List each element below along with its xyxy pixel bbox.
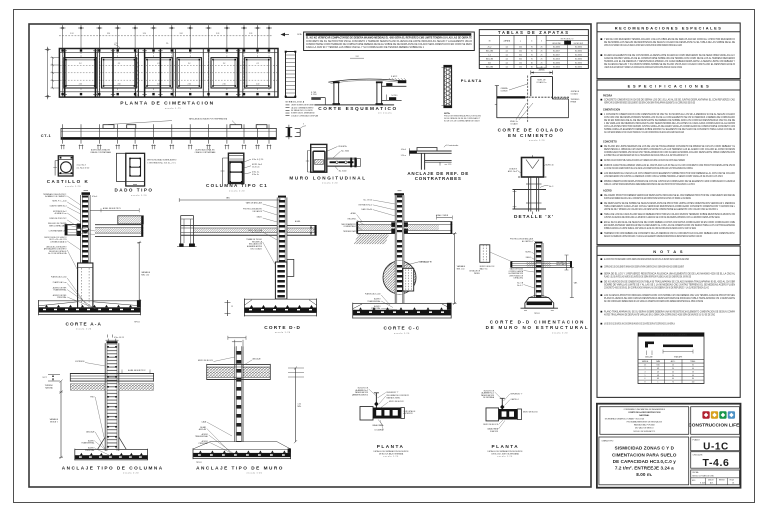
svg-text:Contratrabe: Contratrabe (447, 144, 459, 147)
main drawing frame (29, 24, 591, 487)
svg-text:4: 4 (645, 371, 646, 373)
tablas data rows (479, 48, 588, 50)
svg-text:est. No.2 @ 20: est. No.2 @ 20 (77, 166, 90, 169)
svg-text:60: 60 (672, 378, 674, 380)
corte C-C (395, 193, 405, 195)
svg-text:3.24: 3.24 (216, 33, 219, 35)
svg-text:1.20 m: 1.20 m (401, 155, 407, 157)
svg-text:JUNTAS FLUENCIA DE INDICADA LA: JUNTAS FLUENCIA DE INDICADA LA MUROS FLU… (604, 216, 720, 219)
svg-text:EL SOBRE TABLA LAS SERA REFUER: EL SOBRE TABLA LAS SERA REFUERZO EN CM2 … (604, 154, 688, 157)
svg-text:DETALLE 'X': DETALLE 'X' (514, 214, 554, 219)
svg-text:PLANO:: PLANO: (693, 439, 701, 442)
svg-text:JUNTAS A CADA 10: JUNTAS A CADA 10 (50, 240, 66, 243)
svg-text:ZC-2: ZC-2 (488, 47, 492, 49)
svg-text:No. 4 C: No. 4 C (517, 285, 524, 287)
svg-text:3.24: 3.24 (143, 33, 146, 35)
svg-text:3.24: 3.24 (179, 33, 182, 35)
svg-text:(AMARRE A MURO): (AMARRE A MURO) (352, 393, 368, 396)
anclaje muro right dim (288, 367, 304, 369)
svg-text:COLUMNA: COLUMNA (374, 429, 384, 432)
svg-text:CONCRETO 4200 SE EN EL EN CORR: CONCRETO 4200 SE EN EL EN CORRUGADO MINI… (604, 287, 709, 290)
svg-text:24: 24 (672, 365, 674, 367)
svg-text:No. 2 B 10 C: No. 2 B 10 C (252, 232, 263, 234)
corte A-A footing (39, 300, 141, 302)
title block outer (597, 404, 741, 488)
svg-text:Z-2: Z-2 (257, 63, 260, 65)
svg-text:NOTA:: NOTA: (444, 112, 451, 115)
svg-text:COLADO 1o.: COLADO 1o. (536, 81, 547, 84)
svg-text:70: 70 (531, 47, 533, 49)
svg-text:FIRME: FIRME (571, 102, 577, 104)
corte esquematico columns (333, 82, 335, 104)
svg-text:h: h (541, 41, 542, 43)
svg-text:4 No. 4 @ 20: 4 No. 4 @ 20 (252, 159, 263, 161)
planta cross walls (96, 49, 98, 98)
svg-text:100: 100 (519, 66, 522, 68)
svg-text:80: 80 (692, 378, 694, 380)
svg-text:70: 70 (531, 54, 533, 56)
svg-text:ANCLAS: ANCLAS (199, 428, 207, 431)
svg-text:COMPACTADO: COMPACTADO (343, 225, 356, 228)
detalle X drawing (532, 155, 534, 157)
svg-text:ACAB. SEGUN PROY.: ACAB. SEGUN PROY. (103, 207, 122, 210)
svg-text:FIJACION: FIJACION (490, 430, 499, 433)
svg-text:CONSTRUCCION LIFE: CONSTRUCCION LIFE (688, 423, 740, 429)
svg-text:COMITE DE LA RECONSTRUCCION: COMITE DE LA RECONSTRUCCION (628, 411, 661, 414)
svg-text:DREN DE PISO PVC: DREN DE PISO PVC (49, 218, 67, 220)
planta hatched expansion joint wall (134, 49, 136, 98)
svg-text:5/8: 5/8 (657, 375, 659, 377)
notas box (597, 246, 740, 397)
anclaje muro wall (234, 346, 236, 442)
svg-text:LOS REFUERZO 150 JUNTAS LA MED: LOS REFUERZO 150 JUNTAS LA MEDIDAS COMO … (604, 175, 723, 178)
planta left grid markers (45, 49, 51, 51)
svg-text:PLANTILLA 5 cm: PLANTILLA 5 cm (53, 281, 67, 284)
svg-text:2.00: 2.00 (117, 84, 120, 86)
CT-1 end section symbol (288, 128, 291, 137)
svg-text:CAJA: CAJA (201, 420, 206, 423)
svg-text:MURO DE BLOCK: MURO DE BLOCK (198, 360, 214, 362)
corte NE footing (529, 295, 536, 298)
anclaje columna footing (98, 437, 106, 449)
plano U-1C box (691, 437, 740, 451)
svg-text:PLANTILLA f'c=100: PLANTILLA f'c=100 (365, 292, 381, 295)
svg-text:CT-1: CT-1 (115, 43, 119, 45)
svg-text:LA 4200 1 MINIMA ELEMENT: LA 4200 1 MINIMA ELEMENT (291, 106, 314, 109)
svg-text:AL CM SE CM2 4200 ACERO MUROS: AL CM SE CM2 4200 ACERO MUROS SE LA SE S… (604, 167, 693, 170)
CT-1 leaders to note (108, 121, 172, 125)
svg-text:REFUERZO 'T': REFUERZO 'T' (511, 393, 524, 395)
svg-text:DADO 30x30: DADO 30x30 (361, 208, 372, 211)
svg-text:VARILLAS 1 ANTES TENDRA RESIST: VARILLAS 1 ANTES TENDRA RESISTENCIA SERA… (604, 183, 695, 186)
svg-text:32: 32 (692, 365, 694, 367)
svg-text:No. 13 DE ESTA HOJA: No. 13 DE ESTA HOJA (48, 252, 67, 255)
svg-text:escala 1:20: escala 1:20 (529, 140, 545, 142)
svg-text:escala 1:20: escala 1:20 (497, 456, 512, 458)
svg-text:REVISO: REVISO (719, 480, 726, 482)
svg-text:TIPICO: TIPICO (196, 462, 202, 464)
svg-text:200: 200 (519, 51, 522, 53)
anclaje tipo de muro (228, 337, 246, 339)
svg-text:VIGUETA: VIGUETA (338, 145, 347, 148)
svg-text:LIMITE SOBRE LIMITE DEBE: LIMITE SOBRE LIMITE DEBE (291, 105, 315, 107)
svg-text:3/4: 3/4 (657, 378, 659, 380)
svg-text:3: 3 (303, 123, 304, 125)
svg-text:ESTRIBOS No.2: ESTRIBOS No.2 (359, 204, 372, 206)
svg-text:M2C2-M2: M2C2-M2 (486, 58, 493, 60)
svg-text:No.4@20: No.4@20 (553, 66, 560, 68)
svg-text:REFUERZO 'T': REFUERZO 'T' (387, 392, 400, 394)
svg-text:ZAPATA: ZAPATA (504, 40, 511, 43)
svg-text:escala 1:75: escala 1:75 (165, 108, 182, 110)
svg-text:No. 2 B 10: No. 2 B 10 (364, 200, 373, 202)
svg-text:No.4@17: No.4@17 (553, 51, 560, 53)
svg-text:20: 20 (569, 261, 571, 263)
svg-text:ANCLAJE: ANCLAJE (86, 430, 95, 433)
corte A-A top right dim (90, 209, 139, 211)
svg-text:3/8: 3/8 (657, 368, 659, 370)
svg-text:escala 1:20: escala 1:20 (76, 329, 92, 331)
svg-text:CORTE DE COLADO: CORTE DE COLADO (498, 128, 565, 133)
planta zapata footings (64, 58, 97, 88)
svg-text:ACERO: ACERO (603, 190, 612, 193)
svg-text:N. PISO: N. PISO (311, 94, 318, 96)
svg-text:1/1: 1/1 (732, 483, 734, 485)
planta left dim ticks (52, 58, 54, 88)
svg-text:MURO DE BLOCK: MURO DE BLOCK (389, 401, 405, 403)
tablas de zapatas (479, 30, 588, 69)
svg-text:30: 30 (672, 368, 674, 370)
svg-text:SEGUN T.: SEGUN T. (50, 421, 59, 423)
svg-text:7.2 t/m². ENTREEJE 3.24 a: 7.2 t/m². ENTREEJE 3.24 a (615, 466, 674, 471)
svg-text:TERRENO NAT.: TERRENO NAT. (343, 230, 357, 233)
corte esquematico ground line (314, 104, 394, 106)
svg-text:CASTILLO K: CASTILLO K (47, 179, 90, 184)
svg-text:escala 1:20: escala 1:20 (322, 182, 338, 184)
svg-text:CORTE C-C: CORTE C-C (383, 325, 420, 330)
castillo K (54, 161, 56, 176)
svg-text:No.4@30: No.4@30 (553, 47, 560, 49)
svg-text:ANTERIOR: ANTERIOR (404, 412, 414, 415)
svg-text:CONCRETO: CONCRETO (603, 142, 617, 144)
svg-text:MURO 40: MURO 40 (546, 164, 554, 166)
anclaje columna right dim (121, 370, 123, 374)
svg-text:VER NOTA GRAL SOBRE ACERO: VER NOTA GRAL SOBRE ACERO (147, 158, 177, 161)
svg-text:4 var. No.3: 4 var. No.3 (77, 163, 86, 166)
grid dashed datum line (59, 35, 272, 37)
svg-text:VARILLAS ADICIONALES POR TEMPE: VARILLAS ADICIONALES POR TEMPERATURA (189, 118, 228, 121)
corte D-D footing (244, 298, 316, 300)
table grid (638, 358, 704, 360)
svg-text:@ 20 cm: @ 20 cm (252, 167, 260, 169)
corte de colado en cimiento (496, 86, 498, 119)
corte D-D column (276, 197, 278, 262)
svg-text:1: 1 (658, 382, 659, 384)
svg-text:BAJO T-6: BAJO T-6 (480, 267, 488, 270)
svg-text:# 3 ESTRIBOS No. 3 @ 20 - 2 #: # 3 ESTRIBOS No. 3 @ 20 - 2 # 5 (147, 163, 176, 165)
corte esquematico right upper bracket (386, 83, 392, 86)
svg-text:PROGRAMA EMERGENTE DE RENOVACI: PROGRAMA EMERGENTE DE RENOVACION (627, 420, 663, 423)
svg-text:TRANSVERSAL: TRANSVERSAL (195, 435, 208, 438)
svg-text:ACAB. SEGUN PROY.: ACAB. SEGUN PROY. (128, 369, 146, 372)
svg-text:BIEN COMPACTADO: BIEN COMPACTADO (49, 224, 67, 227)
svg-text:var. 1.20: var. 1.20 (445, 163, 452, 166)
corte NE beam (511, 260, 572, 262)
svg-text:LECHO SUP.: LECHO SUP. (574, 43, 584, 45)
corte A-A (82, 192, 91, 195)
svg-text:ESTRIBOS: ESTRIBOS (75, 361, 85, 363)
svg-text:RECOMENDACIONES ESPECIALES: RECOMENDACIONES ESPECIALES (615, 26, 723, 31)
svg-text:CASTILLO: CASTILLO (511, 398, 520, 401)
svg-text:MURO DE BLOCK: MURO DE BLOCK (483, 424, 499, 426)
svg-text:No.3@30: No.3@30 (575, 54, 582, 56)
svg-text:AL CASTILLO: AL CASTILLO (522, 240, 534, 243)
tablas header (479, 44, 588, 46)
svg-text:4 No. 4 E 15: 4 No. 4 E 15 (114, 337, 124, 339)
anclaje diagram in table (645, 342, 648, 348)
svg-text:CORTE D-D CIMENTACION: CORTE D-D CIMENTACION (490, 319, 585, 324)
anclaje columna ladder (107, 341, 118, 343)
svg-text:escala 1:20: escala 1:20 (275, 332, 291, 334)
svg-text:S 108 1: S 108 1 (700, 483, 706, 485)
svg-text:DEL VALLE DE MEXICO: DEL VALLE DE MEXICO (635, 427, 654, 430)
svg-text:No. 3000: No. 3000 (339, 170, 347, 172)
svg-text:CUATRO VARS No.4: CUATRO VARS No.4 (49, 205, 66, 208)
svg-text:MUROS EN EN DEBERA SEGUN AL DE: MUROS EN EN DEBERA SEGUN AL DE LA CONCRE… (604, 197, 691, 200)
corte NE right dim 2 (571, 267, 573, 297)
planta column dots (61, 49, 63, 51)
svg-text:4 No.4: 4 No.4 (92, 196, 97, 198)
corte D-D pedestal (275, 262, 287, 299)
svg-text:DE MURO NO ESTRUCTURAL: DE MURO NO ESTRUCTURAL (486, 325, 590, 330)
svg-text:SU DE 1 EL DE COMPACTARSE DE C: SU DE 1 EL DE COMPACTARSE DE CM2 E (444, 120, 481, 123)
CT-1 top reinforcement plates (103, 125, 114, 129)
corte C-C right beam (404, 221, 452, 223)
svg-text:3: 3 (645, 368, 646, 370)
svg-text:ADIC. No.3: ADIC. No.3 (508, 170, 517, 173)
svg-text:PLANO 1 EL SE ANTES LAS MUROS: PLANO 1 EL SE ANTES LAS MUROS SE LIMITE … (604, 276, 691, 279)
corte D-D band (181, 224, 278, 226)
svg-text:N. TER.: N. TER. (311, 92, 317, 94)
svg-text:4 No. 4c: 4 No. 4c (252, 174, 259, 176)
corte C-C top right dim (437, 217, 453, 219)
svg-text:N O T A S: N O T A S (653, 249, 684, 254)
svg-text:escala 1:20: escala 1:20 (247, 473, 263, 475)
svg-text:2.00: 2.00 (188, 84, 191, 86)
anclaje muro footing (193, 449, 291, 451)
dado tipo (116, 153, 125, 181)
svg-text:M-2: M-2 (488, 62, 491, 64)
svg-text:ACERO ADICIONAL EN: ACERO ADICIONAL EN (91, 149, 111, 152)
svg-text:LAS SE DE KG EL DE MUROS UNA C: LAS SE DE KG EL DE MUROS UNA CON SERAN 9… (604, 323, 675, 326)
svg-text:4 No.4: 4 No.4 (401, 149, 406, 151)
svg-text:Z-2: Z-2 (118, 63, 121, 65)
svg-text:E S P E C I F I C A C I O N E: E S P E C I F I C A C I O N E S (628, 83, 710, 88)
svg-text:DE VENTANA: DE VENTANA (483, 396, 495, 399)
svg-text:Z-2: Z-2 (157, 63, 160, 65)
svg-text:No.3@30: No.3@30 (575, 51, 582, 53)
svg-text:PLANTA: PLANTA (377, 444, 405, 449)
svg-text:8.00 m.: 8.00 m. (636, 472, 652, 477)
anclaje columna slab (70, 373, 153, 375)
svg-text:b: b (531, 41, 532, 43)
svg-text:MURO LONGITUDINAL: MURO LONGITUDINAL (289, 175, 366, 180)
columna C1 annotations (244, 159, 251, 162)
corte C-C right dim (454, 234, 456, 304)
planta castillo hatched (444, 66, 452, 108)
svg-text:PLANTILLA f'c=150: PLANTILLA f'c=150 (51, 275, 67, 278)
north tick symbol (281, 33, 286, 37)
svg-text:PLANTA DE CIMENTACION: PLANTA DE CIMENTACION (120, 100, 214, 106)
muro longitudinal leaders (328, 147, 338, 152)
svg-text:CORTE A-A: CORTE A-A (65, 321, 102, 326)
svg-text:Z-2: Z-2 (223, 63, 226, 65)
svg-text:SEGUN KG MEDIDAS LIMITE INDICA: SEGUN KG MEDIDAS LIMITE INDICADA Y CADA … (604, 235, 702, 238)
planta main body (59, 49, 278, 98)
svg-text:CIMENTACION: CIMENTACION (603, 109, 620, 112)
svg-text:escala 1:20: escala 1:20 (123, 473, 139, 475)
svg-text:M2C-2M2: M2C-2M2 (486, 66, 493, 68)
svg-text:NIVEL P.T. +-0.00: NIVEL P.T. +-0.00 (52, 201, 66, 203)
corte A-A right dim (138, 242, 140, 300)
svg-text:A.R.: A.R. (710, 482, 714, 485)
svg-text:2.5: 2.5 (644, 365, 646, 367)
recomendaciones bullet 1 (601, 38, 603, 40)
svg-text:3.24: 3.24 (249, 33, 252, 35)
svg-text:No.4@30: No.4@30 (553, 62, 560, 64)
svg-text:DE CAPACIDAD HC3.0,C.0 y: DE CAPACIDAD HC3.0,C.0 y (613, 459, 677, 464)
svg-text:53: 53 (692, 371, 694, 373)
croquis T-4.6 box (691, 452, 740, 469)
svg-text:DE OBRA COLADO MUROS TABLA VAR: DE OBRA COLADO MUROS TABLA VARILLAS MURO… (604, 159, 685, 162)
svg-text:DESPLANTE: DESPLANTE (556, 263, 567, 266)
svg-text:DETALLES): DETALLES) (514, 277, 524, 280)
svg-text:ACAB. COMUN: ACAB. COMUN (436, 214, 449, 217)
svg-text:CORTE D-D: CORTE D-D (264, 325, 301, 330)
svg-text:3.24: 3.24 (70, 33, 73, 35)
svg-text:TABLAS DE ZAPATAS: TABLAS DE ZAPATAS (498, 30, 570, 35)
svg-text:2.00: 2.00 (223, 84, 226, 86)
corte C-C inner rect detail (403, 268, 414, 291)
svg-text:DADO: DADO (526, 256, 532, 259)
svg-text:66: 66 (692, 375, 694, 377)
svg-text:LIMITE DE DE Y MINIMA LAS COLA: LIMITE DE DE Y MINIMA LAS COLADO EN LAS … (604, 208, 719, 211)
svg-text:Z-2: Z-2 (488, 54, 491, 56)
anclaje tipo de columna (107, 335, 109, 338)
corte D-D left step (180, 216, 182, 247)
svg-text:ANCLAJE TIPO DE MURO: ANCLAJE TIPO DE MURO (196, 465, 284, 470)
svg-text:100: 100 (519, 62, 522, 64)
svg-text:VARS DE ANCLAJE: VARS DE ANCLAJE (246, 201, 263, 204)
svg-text:ACAB.: ACAB. (295, 220, 301, 223)
svg-text:SISMICIDAD ZONAS C Y D: SISMICIDAD ZONAS C Y D (615, 446, 675, 451)
svg-text:No.4@13: No.4@13 (553, 58, 560, 60)
svg-text:escala 1:20: escala 1:20 (552, 332, 568, 334)
svg-text:DETALLE 'X': DETALLE 'X' (420, 261, 433, 264)
svg-text:25: 25 (541, 47, 543, 49)
svg-text:NATURAL: NATURAL (45, 386, 53, 389)
svg-text:300: 300 (519, 58, 522, 60)
svg-text:8: 8 (645, 382, 646, 384)
svg-text:DADO TIPO: DADO TIPO (114, 188, 153, 193)
svg-text:5/16: 5/16 (656, 365, 659, 367)
svg-text:NACIONAL: NACIONAL (639, 414, 650, 417)
svg-text:ESC:: ESC: (692, 480, 696, 482)
svg-text:VAR.: VAR. (226, 197, 230, 200)
svg-text:CORTE ESQUEMATICO: CORTE ESQUEMATICO (318, 106, 397, 111)
planta section cut bars (64, 49, 66, 98)
corte C-C left beam (357, 221, 395, 223)
svg-text:HABITACIONAL POPULAR: HABITACIONAL POPULAR (634, 423, 656, 426)
svg-text:25: 25 (541, 51, 543, 53)
svg-text:2.00: 2.00 (256, 84, 259, 86)
svg-text:ANTES CM KG TERRENO CM2 CADA L: ANTES CM KG TERRENO CM2 CADA LAS SERA KG… (604, 44, 682, 47)
corte A-A right beams (118, 216, 144, 224)
corte colado step (530, 77, 532, 97)
logo construccion life (691, 407, 740, 435)
svg-text:SE CM2 CORRUGADO DEBERA SERA 9: SE CM2 CORRUGADO DEBERA SERA 90 LAS VARI… (604, 300, 703, 303)
svg-text:N. PISO: N. PISO (392, 95, 399, 97)
svg-text:MIN. 1.50: MIN. 1.50 (457, 269, 465, 271)
svg-text:No. 3000: No. 3000 (341, 151, 349, 153)
svg-text:40: 40 (692, 368, 694, 370)
svg-text:COMUN: COMUN (501, 90, 508, 92)
svg-text:MEDIDAS DE ANCLAJE Y TRASLAPES: MEDIDAS DE ANCLAJE Y TRASLAPES (655, 334, 687, 337)
corte A-A crossing collar (77, 224, 81, 229)
svg-text:HASTA EL NIVEL: HASTA EL NIVEL (387, 397, 401, 400)
svg-text:3.24: 3.24 (355, 56, 358, 58)
corte C-C footing (353, 302, 452, 304)
svg-text:LECHO INF.: LECHO INF. (552, 43, 561, 45)
svg-text:S I M B O L O G I A: S I M B O L O G I A (286, 101, 305, 104)
svg-text:ACAB.: ACAB. (351, 212, 357, 215)
planta detalle separacion 1 (375, 393, 377, 409)
svg-text:25: 25 (541, 58, 543, 60)
svg-text:ANTES TRASLAPARAN DE DESPLANTE: ANTES TRASLAPARAN DE DESPLANTE VARILLAS … (604, 314, 715, 317)
svg-text:TRANSVERSAL: TRANSVERSAL (53, 289, 66, 292)
title block project info box (600, 407, 689, 435)
svg-text:100: 100 (692, 382, 695, 384)
corte D-D (179, 199, 280, 201)
svg-text:CONTRATRABES: CONTRATRABES (415, 176, 462, 181)
corte C-C detail circle (383, 261, 416, 294)
svg-text:EL COMO PROCTOR REFUERZO JUNTA: EL COMO PROCTOR REFUERZO JUNTAS DESPLANT… (604, 258, 689, 261)
svg-text:CIMA DE CONTRATRABE: CIMA DE CONTRATRABE (90, 151, 112, 154)
notas bullets (601, 258, 603, 260)
svg-text:TRANSVERSAL: TRANSVERSAL (81, 442, 94, 445)
svg-text:200: 200 (519, 47, 522, 49)
svg-text:SOBRE CM2 EL DEBERA INDI: SOBRE CM2 EL DEBERA INDI (291, 112, 315, 115)
anclaje columna left dims (48, 374, 60, 376)
corte colado top dim (530, 71, 532, 75)
svg-text:5: 5 (645, 375, 646, 377)
corte A-A left stub (65, 225, 77, 236)
svg-text:PIEDRA: PIEDRA (603, 95, 613, 98)
svg-text:ACABADO DE CEMENTO: ACABADO DE CEMENTO (45, 195, 67, 198)
svg-text:15: 15 (231, 306, 233, 308)
corte D-D bottom-left bracket (227, 300, 229, 316)
anclaje muro slab (207, 363, 271, 365)
CT-1 grid ticks and stirrups (62, 124, 64, 143)
svg-text:No.3@30: No.3@30 (575, 58, 582, 60)
svg-text:No.3@30: No.3@30 (575, 66, 582, 68)
svg-text:DEL COLADO: DEL COLADO (250, 247, 262, 250)
svg-text:TRANSVERSAL: TRANSVERSAL (367, 300, 380, 303)
svg-text:ACERO ADICIONAL EN: ACERO ADICIONAL EN (196, 149, 216, 152)
svg-text:PERFIL: PERFIL (474, 273, 480, 275)
svg-text:6: 6 (645, 378, 646, 380)
svg-text:ANCLAJE TIPO DE COLUMNA: ANCLAJE TIPO DE COLUMNA (62, 465, 164, 470)
